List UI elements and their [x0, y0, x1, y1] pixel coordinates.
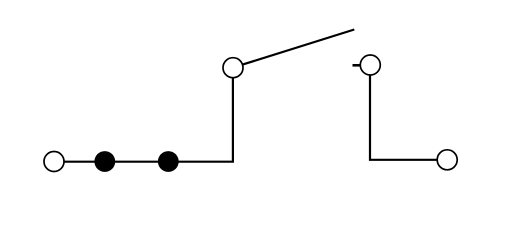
wire — [370, 76, 437, 160]
junction dot 1 — [94, 151, 115, 172]
junction dot 2 — [158, 151, 179, 172]
wire — [65, 161, 96, 163]
switch blade SW1 — [243, 30, 355, 65]
wire — [115, 161, 159, 163]
terminal B (right open circle) — [437, 150, 457, 170]
terminal A (left open circle) — [44, 152, 64, 172]
wire — [179, 78, 233, 162]
switch pole node (open circle) — [223, 58, 243, 78]
contact tick — [353, 64, 361, 67]
switch throw node (open circle) — [360, 55, 380, 75]
